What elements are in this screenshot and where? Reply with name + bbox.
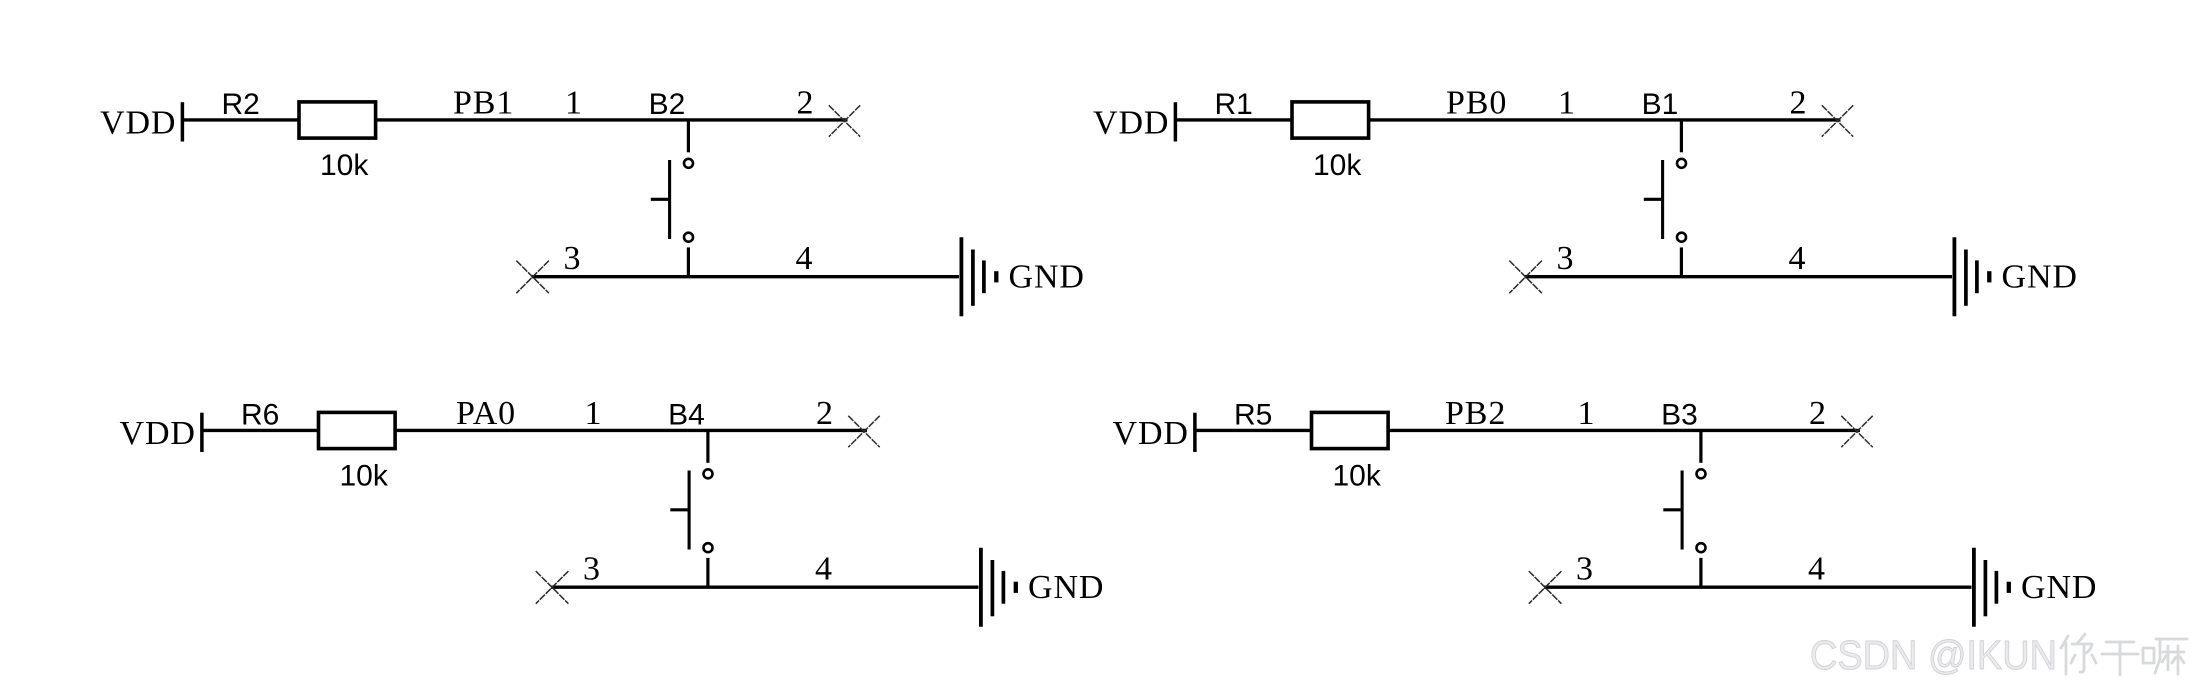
svg-text:R1: R1 bbox=[1215, 88, 1253, 121]
svg-text:4: 4 bbox=[796, 240, 814, 277]
svg-text:2: 2 bbox=[797, 85, 815, 122]
svg-text:PB1: PB1 bbox=[453, 85, 514, 122]
svg-text:GND: GND bbox=[1028, 569, 1104, 606]
svg-text:PB2: PB2 bbox=[1445, 395, 1506, 432]
svg-text:1: 1 bbox=[585, 395, 603, 432]
svg-text:3: 3 bbox=[1576, 551, 1594, 588]
svg-text:PB0: PB0 bbox=[1446, 85, 1507, 122]
svg-text:GND: GND bbox=[2021, 569, 2097, 606]
svg-text:B3: B3 bbox=[1661, 399, 1698, 432]
svg-text:4: 4 bbox=[1808, 551, 1826, 588]
svg-text:R5: R5 bbox=[1234, 399, 1272, 432]
svg-text:1: 1 bbox=[1578, 395, 1596, 432]
svg-text:R6: R6 bbox=[241, 399, 279, 432]
svg-text:1: 1 bbox=[1558, 85, 1576, 122]
svg-text:10k: 10k bbox=[1313, 149, 1362, 182]
svg-text:4: 4 bbox=[1789, 240, 1807, 277]
svg-text:10k: 10k bbox=[340, 460, 389, 493]
svg-text:VDD: VDD bbox=[100, 105, 176, 142]
svg-text:PA0: PA0 bbox=[456, 395, 516, 432]
svg-text:B4: B4 bbox=[668, 399, 705, 432]
svg-text:CSDN @IKUN: CSDN @IKUN bbox=[1810, 632, 2057, 678]
svg-text:2: 2 bbox=[1790, 85, 1808, 122]
svg-text:VDD: VDD bbox=[120, 415, 196, 452]
svg-text:3: 3 bbox=[1557, 240, 1575, 277]
svg-text:3: 3 bbox=[564, 240, 582, 277]
svg-text:4: 4 bbox=[815, 551, 833, 588]
svg-text:10k: 10k bbox=[320, 149, 369, 182]
svg-text:10k: 10k bbox=[1333, 460, 1382, 493]
svg-text:2: 2 bbox=[816, 395, 834, 432]
svg-text:B2: B2 bbox=[649, 88, 686, 121]
svg-text:2: 2 bbox=[1809, 395, 1827, 432]
svg-text:VDD: VDD bbox=[1093, 105, 1169, 142]
svg-text:GND: GND bbox=[1009, 259, 1085, 296]
svg-text:1: 1 bbox=[565, 85, 583, 122]
svg-text:R2: R2 bbox=[222, 88, 260, 121]
svg-text:GND: GND bbox=[2002, 259, 2078, 296]
svg-text:VDD: VDD bbox=[1113, 415, 1189, 452]
svg-text:3: 3 bbox=[583, 551, 601, 588]
svg-text:B1: B1 bbox=[1642, 88, 1679, 121]
